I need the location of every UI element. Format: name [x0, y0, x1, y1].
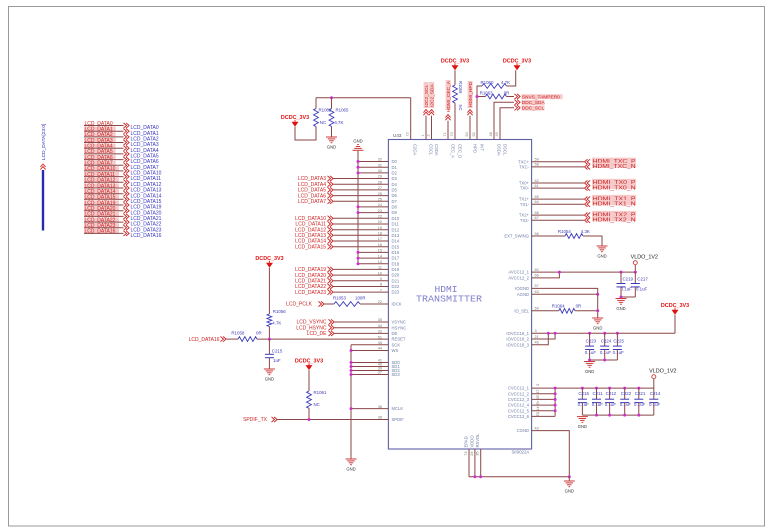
wire caps to gnd — [621, 296, 635, 298]
svg-text:R1060: R1060 — [481, 80, 494, 85]
net I2C2_SCL to pin CSCL — [424, 82, 429, 108]
pin D17 (pin 14) — [358, 257, 388, 259]
svg-text:D2: D2 — [392, 171, 398, 176]
svg-text:0.1uF: 0.1uF — [621, 287, 633, 292]
svg-text:U43: U43 — [393, 133, 402, 138]
svg-text:D9: D9 — [392, 210, 398, 215]
bus wire — [42, 170, 44, 231]
off-page row LCD_DATA5 — [84, 149, 116, 154]
svg-text:47: 47 — [536, 406, 540, 410]
svg-text:22: 22 — [378, 300, 382, 304]
wire CGND to gnd — [532, 431, 570, 477]
svg-text:TX0-: TX0- — [520, 186, 530, 191]
junction HPD/INT pullup — [476, 95, 479, 98]
svg-text:23: 23 — [378, 209, 382, 213]
net DDC_SDA — [494, 102, 514, 139]
svg-text:CVCC12_3: CVCC12_3 — [508, 397, 530, 402]
svg-text:32: 32 — [378, 158, 382, 162]
svg-text:GND: GND — [265, 376, 274, 381]
ground audio — [346, 458, 357, 460]
svg-text:CEC_A: CEC_A — [451, 144, 456, 158]
svg-text:R1062: R1062 — [319, 108, 332, 113]
off-page row LCD_DATA3 — [84, 138, 116, 143]
pin MCLK 36 grounded — [351, 408, 388, 410]
svg-text:D5: D5 — [392, 188, 398, 193]
svg-text:14: 14 — [378, 254, 382, 258]
svg-text:45: 45 — [378, 341, 382, 345]
svg-text:4.7K: 4.7K — [334, 120, 343, 125]
svg-text:2: 2 — [426, 134, 430, 136]
off-page row LCD_DATA11 — [84, 172, 119, 177]
pin D2 (pin 30) — [358, 172, 388, 174]
svg-text:0.1uF: 0.1uF — [636, 287, 648, 292]
svg-text:25: 25 — [378, 198, 382, 202]
svg-text:48: 48 — [489, 132, 493, 136]
svg-text:35: 35 — [476, 452, 480, 456]
svg-text:0.1uF: 0.1uF — [649, 402, 661, 407]
off-page row LCD_DATA20 — [84, 206, 119, 211]
svg-text:HDMI_TX1_N: HDMI_TX1_N — [593, 201, 636, 207]
svg-text:R1056: R1056 — [273, 309, 286, 314]
svg-text:64: 64 — [535, 200, 539, 204]
svg-text:7: 7 — [380, 288, 382, 292]
svg-text:CVCC12_6: CVCC12_6 — [508, 414, 530, 419]
svg-text:R1053: R1053 — [333, 296, 346, 301]
pin D8 (pin 24) — [358, 206, 388, 208]
svg-text:D22: D22 — [392, 284, 400, 289]
wire CVCC12 rail — [532, 387, 654, 389]
ground for C215 — [264, 368, 275, 370]
svg-text:AGND: AGND — [517, 292, 529, 297]
svg-text:29: 29 — [470, 452, 474, 456]
svg-text:LCD_DATA7: LCD_DATA7 — [298, 199, 326, 205]
svg-text:1uF: 1uF — [273, 358, 281, 363]
svg-text:30: 30 — [536, 395, 540, 399]
svg-text:15: 15 — [378, 249, 382, 253]
pin D18 (pin 13) — [358, 263, 388, 265]
svg-text:66: 66 — [535, 274, 539, 278]
svg-text:R1061: R1061 — [314, 390, 327, 395]
capacitor C224 0.1uF — [603, 332, 606, 335]
off-page row LCD_DATA10 — [84, 166, 119, 171]
svg-text:61: 61 — [535, 184, 539, 188]
svg-text:DE: DE — [392, 331, 398, 336]
svg-text:C216: C216 — [578, 391, 589, 396]
svg-text:TX2-: TX2- — [520, 218, 530, 223]
svg-text:SPDIF_TX: SPDIF_TX — [243, 417, 268, 423]
svg-text:R1058: R1058 — [231, 331, 244, 336]
svg-text:49: 49 — [495, 132, 499, 136]
pin D0 (pin 32) — [358, 161, 388, 163]
net DDC_SCL — [500, 108, 514, 140]
svg-text:DSCL: DSCL — [503, 144, 508, 156]
svg-text:28: 28 — [378, 180, 382, 184]
svg-text:0.1uF: 0.1uF — [613, 350, 625, 355]
svg-text:62: 62 — [535, 179, 539, 183]
wire CVCC12_6 — [532, 415, 556, 417]
ground for C219/C217 — [616, 298, 627, 300]
svg-text:D17: D17 — [392, 256, 400, 261]
svg-text:DDC_SCL: DDC_SCL — [522, 106, 545, 112]
svg-text:AVCC12_1: AVCC12_1 — [508, 270, 529, 275]
svg-text:D11: D11 — [392, 222, 400, 227]
svg-text:LCD_DATA23: LCD_DATA23 — [295, 290, 326, 296]
svg-text:60: 60 — [535, 268, 539, 272]
pin SD2 39 grounded — [351, 370, 388, 372]
junction SPDIF/R1061 — [308, 418, 311, 421]
net HDMI_TX0_N pin 61 — [532, 187, 584, 189]
wire rail to pin 72 — [315, 98, 317, 109]
resistor R1059 NC — [454, 70, 456, 85]
svg-text:44: 44 — [378, 347, 382, 351]
svg-text:LCD_DATA[23:0]: LCD_DATA[23:0] — [41, 124, 47, 160]
svg-text:D4: D4 — [392, 182, 398, 187]
svg-text:0R: 0R — [504, 91, 510, 96]
svg-text:D16: D16 — [392, 250, 400, 255]
capacitor C216 0.1uF — [581, 387, 584, 390]
svg-text:C211: C211 — [593, 391, 604, 396]
svg-text:34: 34 — [378, 324, 382, 328]
svg-text:LCD_DATA16: LCD_DATA16 — [189, 337, 220, 343]
wire IOGND/AGND to gnd — [532, 288, 598, 294]
off-page row LCD_DATA23 — [84, 223, 119, 228]
svg-text:0R: 0R — [576, 304, 582, 309]
svg-text:68: 68 — [535, 211, 539, 215]
svg-text:INT: INT — [480, 144, 485, 151]
svg-text:GND: GND — [346, 466, 355, 471]
capacitor C214 0.1uF — [653, 388, 655, 399]
svg-text:0.1uF: 0.1uF — [634, 402, 646, 407]
svg-text:SPDIF: SPDIF — [392, 417, 405, 422]
svg-text:IOVCC18_2: IOVCC18_2 — [506, 337, 529, 342]
pin SCK 45 — [351, 344, 388, 346]
svg-text:R1065: R1065 — [336, 108, 349, 113]
ground for IO_SEL/AGND — [592, 317, 603, 319]
svg-text:D10: D10 — [392, 216, 400, 221]
svg-text:SD3: SD3 — [392, 372, 401, 377]
pin D16 (pin 15) — [358, 251, 388, 253]
net SNVS_TAMPER0 — [522, 94, 563, 99]
net HDMI_TX0_P pin 62 — [532, 182, 584, 184]
svg-text:LCD_DE: LCD_DE — [307, 331, 327, 337]
svg-text:51: 51 — [378, 335, 382, 339]
net HDMI_TX1_P pin 65 — [532, 198, 584, 200]
capacitor C219 0.1uF — [620, 271, 623, 274]
svg-text:C215: C215 — [272, 349, 283, 354]
svg-text:SiI9022A: SiI9022A — [512, 450, 530, 455]
resistor R1062 NC — [314, 109, 319, 127]
ground for IOVCC caps — [584, 361, 595, 363]
svg-text:6: 6 — [536, 384, 540, 386]
ground for R1065 — [331, 127, 333, 138]
net HDMI_TX2_P pin 68 — [532, 214, 584, 216]
off-page row LCD_DATA21 — [84, 212, 119, 217]
net HDMI_TXC_P pin 59 — [532, 161, 584, 163]
svg-text:RESET: RESET — [392, 337, 406, 342]
svg-text:D0: D0 — [392, 159, 398, 164]
off-page row LCD_DATA6 — [84, 155, 116, 160]
svg-text:HDMI_TX2_N: HDMI_TX2_N — [593, 217, 636, 223]
svg-text:C223: C223 — [586, 339, 597, 344]
svg-text:GND: GND — [616, 306, 625, 311]
svg-text:D19: D19 — [392, 267, 400, 272]
svg-text:SNVS_TAMPER0: SNVS_TAMPER0 — [522, 94, 560, 100]
junction R1056/C215/RESET — [268, 338, 271, 341]
svg-text:33: 33 — [378, 330, 382, 334]
svg-text:67: 67 — [535, 216, 539, 220]
wire CVCC caps to gnd — [582, 414, 653, 416]
capacitor C225 0.1uF — [616, 332, 619, 335]
svg-text:CGND: CGND — [517, 428, 529, 433]
svg-text:10: 10 — [378, 271, 382, 275]
svg-text:GND: GND — [327, 144, 336, 149]
svg-text:53: 53 — [536, 412, 540, 416]
svg-text:HDMI_CEC_A: HDMI_CEC_A — [446, 80, 452, 112]
svg-text:D20: D20 — [392, 273, 400, 278]
net HDMI_TX2_N pin 67 — [532, 219, 584, 221]
svg-text:58: 58 — [535, 163, 539, 167]
resistor R1060 4.7K — [477, 86, 482, 97]
svg-text:TX1-: TX1- — [520, 202, 530, 207]
capacitor C223 0.1uF — [588, 332, 591, 335]
off-page row LCD_DATA13 — [84, 183, 119, 188]
svg-text:0R: 0R — [256, 331, 262, 336]
svg-text:IOGND: IOGND — [515, 286, 529, 291]
svg-text:CEC_D: CEC_D — [458, 144, 463, 158]
off-page row LCD_DATA7 — [84, 161, 116, 166]
resistor R1061 NC — [308, 370, 310, 391]
svg-text:100R: 100R — [355, 296, 366, 301]
svg-text:CVCC12_4: CVCC12_4 — [508, 403, 530, 408]
capacitor C212 0.1uF — [608, 387, 611, 390]
svg-text:11: 11 — [378, 266, 382, 270]
svg-text:20: 20 — [378, 220, 382, 224]
svg-text:D13: D13 — [392, 233, 400, 238]
off-page row LCD_DATA12 — [84, 178, 119, 183]
net HDMI_TXC_N pin 58 — [532, 166, 584, 168]
svg-text:VSYNC: VSYNC — [392, 320, 406, 325]
svg-text:EPAD: EPAD — [464, 436, 469, 447]
ground bottom — [568, 477, 570, 481]
svg-text:IOVCC18_3: IOVCC18_3 — [506, 342, 529, 347]
resistor R1054 4.3K — [532, 235, 565, 237]
off-page row LCD_DATA2 — [84, 132, 116, 137]
pin SD0 41 grounded — [351, 362, 388, 364]
resistor R1058 0R — [227, 338, 239, 340]
svg-text:0.1uF: 0.1uF — [592, 402, 604, 407]
svg-text:CSDA: CSDA — [434, 144, 439, 156]
ground for CVCC caps — [577, 416, 588, 418]
svg-text:GND: GND — [353, 139, 362, 144]
svg-text:0.1uF: 0.1uF — [585, 350, 597, 355]
svg-text:C222: C222 — [621, 391, 632, 396]
wire audio gnd vertical — [350, 345, 352, 459]
svg-text:D14: D14 — [392, 239, 400, 244]
svg-text:38: 38 — [378, 416, 382, 420]
power DCDC_3V3 for IOVCC18 — [674, 315, 676, 334]
capacitor C215 1uF — [268, 339, 270, 354]
svg-text:71: 71 — [443, 132, 447, 136]
pin D9 (pin 23) — [358, 212, 388, 214]
svg-text:69: 69 — [535, 307, 539, 311]
svg-text:56: 56 — [535, 232, 539, 236]
svg-text:57: 57 — [535, 284, 539, 288]
wire 3v3 to R1062 — [295, 127, 316, 141]
svg-text:GND: GND — [578, 424, 587, 429]
svg-text:CVCC12_1: CVCC12_1 — [508, 386, 530, 391]
svg-text:CSCL: CSCL — [429, 144, 434, 156]
svg-text:72: 72 — [405, 132, 409, 136]
svg-text:C212: C212 — [606, 391, 617, 396]
svg-text:0.1uF: 0.1uF — [620, 402, 632, 407]
svg-text:C214: C214 — [650, 391, 661, 396]
svg-text:4.7K: 4.7K — [501, 80, 510, 85]
svg-text:C217: C217 — [637, 277, 648, 282]
svg-text:HDMI_TXC_N: HDMI_TXC_N — [593, 164, 636, 170]
svg-text:IOVCC18_1: IOVCC18_1 — [506, 331, 529, 336]
svg-text:37: 37 — [378, 371, 382, 375]
capacitor C217 0.1uF — [634, 271, 637, 274]
svg-text:VLDO_1V2: VLDO_1V2 — [631, 255, 658, 261]
svg-text:R1064: R1064 — [552, 304, 565, 309]
svg-text:0.1uF: 0.1uF — [605, 402, 617, 407]
svg-text:WS: WS — [392, 348, 399, 353]
svg-text:D7: D7 — [392, 199, 398, 204]
svg-text:0.1uF: 0.1uF — [578, 402, 590, 407]
svg-text:D15: D15 — [392, 244, 400, 249]
off-page row LCD_DATA19 — [84, 200, 119, 205]
svg-text:GND: GND — [585, 369, 594, 374]
svg-text:IDCK: IDCK — [392, 302, 402, 307]
svg-text:CVCC12_5: CVCC12_5 — [508, 408, 530, 413]
svg-text:VLDO_1V2: VLDO_1V2 — [649, 369, 676, 375]
resistor R1065 4.7K — [329, 109, 334, 127]
svg-text:RSVDL: RSVDL — [475, 433, 480, 448]
svg-text:3: 3 — [535, 329, 537, 333]
svg-text:43: 43 — [535, 426, 539, 430]
svg-text:AVCC12_2: AVCC12_2 — [508, 276, 529, 281]
svg-text:24: 24 — [378, 203, 382, 207]
wire bottom pins tie — [469, 476, 569, 478]
svg-text:GND: GND — [593, 325, 602, 330]
svg-text:MCLK: MCLK — [392, 406, 404, 411]
svg-text:TRANSMITTER: TRANSMITTER — [416, 294, 482, 305]
off-page row LCD_DATA14 — [84, 189, 119, 194]
svg-text:HDMI_HPD: HDMI_HPD — [468, 81, 474, 107]
svg-text:GND: GND — [597, 253, 606, 258]
svg-text:21: 21 — [535, 335, 539, 339]
svg-text:I2C2_SDA: I2C2_SDA — [429, 84, 435, 107]
svg-text:D18: D18 — [392, 261, 400, 266]
capacitor C211 0.1uF — [595, 387, 598, 390]
svg-text:17: 17 — [378, 237, 382, 241]
svg-text:4.3K: 4.3K — [581, 229, 590, 234]
svg-text:0.1uF: 0.1uF — [600, 350, 612, 355]
wire IOVCC18 rail — [532, 332, 675, 334]
capacitor C222 0.1uF — [623, 387, 626, 390]
svg-text:59: 59 — [535, 158, 539, 162]
svg-text:D8: D8 — [392, 205, 398, 210]
svg-text:HDMI_TX0_N: HDMI_TX0_N — [593, 185, 636, 191]
svg-text:D6: D6 — [392, 193, 398, 198]
svg-text:46: 46 — [535, 341, 539, 345]
svg-text:65: 65 — [535, 195, 539, 199]
svg-text:73: 73 — [464, 452, 468, 456]
resistor R1053 100R — [325, 303, 335, 305]
off-page row LCD_DATA22 — [84, 218, 119, 223]
svg-text:13: 13 — [378, 260, 382, 264]
svg-text:CVCC12_2: CVCC12_2 — [508, 391, 530, 396]
svg-text:DDC_SDA: DDC_SDA — [522, 100, 546, 106]
svg-text:D23: D23 — [392, 290, 400, 295]
svg-text:22: 22 — [378, 215, 382, 219]
svg-text:63: 63 — [535, 290, 539, 294]
net HDMI_HPD — [468, 81, 473, 108]
pin INT 52 wire — [476, 97, 478, 140]
svg-text:GND: GND — [565, 488, 574, 493]
net HDMI_CEC_A — [446, 80, 451, 110]
pin SD1 40 grounded — [351, 366, 388, 368]
resistor R1064 0R — [532, 310, 559, 312]
wire gnd vertical for D pins — [357, 151, 359, 264]
pin WS 44 — [351, 350, 388, 352]
svg-text:54: 54 — [465, 132, 469, 136]
svg-text:SCK: SCK — [392, 342, 401, 347]
op IC U43 SiI9022A body — [388, 140, 531, 450]
wire AVCC rail — [532, 271, 636, 273]
wire 3v3 to R1056 — [268, 268, 270, 314]
ground for R1054 — [597, 245, 608, 247]
svg-text:LCD_PCLK: LCD_PCLK — [286, 302, 313, 308]
svg-text:C221: C221 — [635, 391, 646, 396]
svg-text:36: 36 — [378, 405, 382, 409]
svg-text:EXT_SWING: EXT_SWING — [504, 234, 529, 239]
svg-text:LCD_DATA16: LCD_DATA16 — [131, 233, 162, 239]
pin SD3 37 grounded — [351, 374, 388, 376]
svg-text:9: 9 — [380, 277, 382, 281]
svg-text:30: 30 — [378, 169, 382, 173]
svg-text:IO_SEL: IO_SEL — [514, 308, 529, 313]
svg-text:C219: C219 — [623, 277, 634, 282]
svg-text:35: 35 — [378, 318, 382, 322]
svg-text:52: 52 — [472, 132, 476, 136]
svg-text:HSYNC: HSYNC — [392, 325, 407, 330]
svg-text:16: 16 — [378, 243, 382, 247]
svg-text:R1054: R1054 — [558, 229, 571, 234]
svg-text:8: 8 — [380, 283, 382, 287]
svg-text:D12: D12 — [392, 227, 400, 232]
svg-text:19: 19 — [378, 226, 382, 230]
pin D1 (pin 31) — [358, 166, 388, 168]
svg-text:TXC-: TXC- — [519, 165, 529, 170]
wire IOVCC caps to gnd — [590, 359, 618, 361]
svg-text:D1: D1 — [392, 165, 398, 170]
off-page row LCD_DATA16 — [84, 229, 119, 234]
svg-text:70: 70 — [450, 132, 454, 136]
svg-text:D21: D21 — [392, 278, 400, 283]
svg-text:VDDO: VDDO — [469, 435, 474, 448]
svg-text:42: 42 — [536, 401, 540, 405]
svg-text:NC: NC — [458, 105, 463, 111]
svg-text:C224: C224 — [601, 339, 612, 344]
svg-text:NC: NC — [314, 402, 320, 407]
svg-text:27: 27 — [378, 186, 382, 190]
svg-text:LCD_DATA15: LCD_DATA15 — [295, 244, 326, 250]
svg-text:1: 1 — [421, 134, 425, 136]
svg-text:DSDA: DSDA — [497, 144, 502, 156]
capacitor C221 0.1uF — [637, 387, 640, 390]
net I2C2_SDA to pin CSDA — [429, 82, 434, 108]
